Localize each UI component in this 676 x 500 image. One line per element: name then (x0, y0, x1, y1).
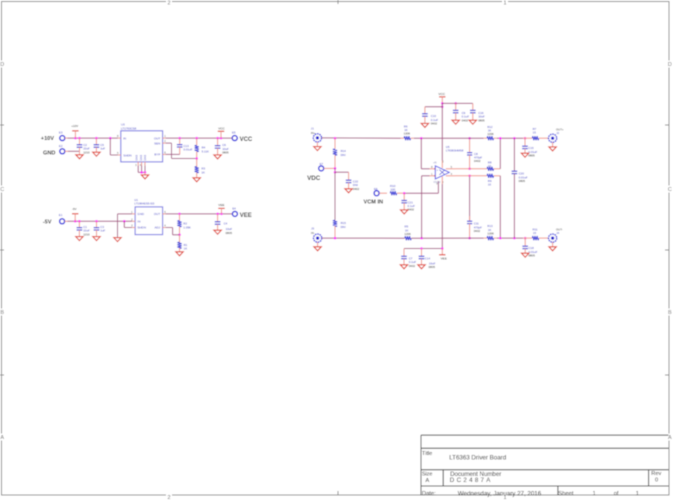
svg-text:10: 10 (488, 164, 492, 168)
wire OUT+ net (456, 137, 527, 169)
capacitor C16 10uF 0805 (470, 103, 485, 122)
node -5V (43, 220, 52, 226)
ground (C9) (452, 120, 459, 124)
capacitor C15 0.01uF 0805 (522, 138, 537, 157)
svg-text:2: 2 (168, 1, 171, 7)
wire SHDN tap (U1) (124, 221, 132, 227)
ground (C3) (93, 237, 100, 241)
svg-text:E1: E1 (59, 213, 63, 217)
capacitor C20 0.01uF 0805 (512, 138, 528, 238)
svg-text:1: 1 (636, 491, 639, 497)
svg-text:C: C (0, 187, 4, 193)
wire ADJ loop (U1) (166, 228, 180, 235)
IC U1 LT1964ES5-SD (131, 198, 166, 235)
resistor R1 1K (177, 235, 187, 252)
capacitor C2 22uF 1210 (77, 138, 90, 154)
svg-text:IN: IN (123, 136, 126, 140)
svg-text:1K: 1K (184, 247, 188, 251)
svg-text:1uF: 1uF (100, 229, 105, 233)
resistor R15 DNI (333, 172, 346, 238)
svg-text:E7: E7 (320, 162, 324, 166)
svg-text:E5: E5 (232, 131, 236, 135)
svg-text:10: 10 (488, 183, 492, 187)
svg-text:A: A (668, 435, 672, 441)
svg-text:Sheet: Sheet (558, 491, 574, 497)
svg-text:+10V: +10V (41, 136, 54, 142)
title block (421, 435, 669, 497)
svg-text:1: 1 (593, 491, 596, 497)
svg-text:of: of (614, 491, 619, 497)
ground (C7) (400, 265, 407, 269)
wire U1 GND pin (118, 214, 133, 238)
ground (U1 GND) (114, 238, 121, 242)
svg-text:GND: GND (143, 155, 147, 161)
ground (R1) (176, 252, 183, 256)
svg-text:D: D (668, 62, 672, 68)
wire IN- rail (322, 237, 467, 240)
svg-text:OUT: OUT (154, 136, 161, 140)
svg-text:VOCM: VOCM (433, 182, 440, 184)
svg-text:J1: J1 (311, 126, 314, 130)
svg-text:5.11K: 5.11K (202, 149, 209, 153)
svg-text:0402: 0402 (474, 229, 481, 233)
capacitor C18 0.01uF 0805 (522, 238, 537, 257)
svg-text:1.05K: 1.05K (183, 225, 191, 229)
capacitor C5 1uF (94, 138, 106, 152)
connector E3 (59, 131, 68, 141)
node VCC (240, 137, 253, 143)
connector E5 (232, 131, 237, 141)
svg-text:BYP: BYP (154, 153, 160, 157)
svg-text:Size: Size (422, 472, 433, 478)
svg-text:1210: 1210 (83, 150, 90, 154)
svg-text:-5V: -5V (72, 207, 77, 211)
svg-text:GND: GND (43, 150, 55, 156)
ground (C14) (418, 265, 425, 269)
svg-text:LT6363HMS8: LT6363HMS8 (446, 149, 464, 153)
node +10V (41, 136, 54, 142)
svg-text:-5V: -5V (43, 220, 52, 226)
svg-text:Rev: Rev (651, 471, 661, 477)
svg-text:1: 1 (504, 1, 507, 7)
resistor R14 DNI (333, 138, 346, 168)
connector E6 (374, 187, 387, 196)
svg-text:0402: 0402 (431, 122, 438, 126)
ground (C2/E2) (76, 152, 83, 159)
svg-text:0805: 0805 (429, 265, 436, 269)
svg-text:15: 15 (533, 131, 537, 135)
node VDC (307, 175, 321, 182)
svg-text:J3: J3 (311, 226, 314, 230)
connector E1 (59, 213, 68, 224)
svg-text:1206: 1206 (404, 132, 411, 136)
resistor R6 1K 1206 (401, 124, 414, 140)
capacitor C8 470pF 0402 (467, 137, 482, 170)
resistor R5 1K 1206 (404, 225, 411, 241)
ground (J1) (314, 147, 321, 151)
svg-text:SHDN: SHDN (137, 226, 146, 230)
capacitor C21 0.1uF 0402 (401, 193, 415, 212)
node GND (43, 150, 55, 156)
ground (R3) (193, 178, 200, 182)
svg-text:0805: 0805 (478, 118, 485, 122)
wire BYP (U3) (166, 153, 180, 155)
svg-text:B: B (668, 310, 672, 316)
svg-text:IN: IN (137, 220, 140, 224)
capacitor C11 470pF 0402 (467, 175, 482, 240)
svg-text:0402: 0402 (462, 118, 469, 122)
svg-text:ADJ: ADJ (155, 226, 161, 230)
ground (C10) (421, 123, 428, 127)
jack J1 IN+ (311, 126, 322, 146)
svg-text:+IN: +IN (433, 162, 437, 164)
svg-text:0805: 0805 (222, 151, 229, 155)
ground (C21) (401, 210, 408, 214)
svg-text:A: A (0, 435, 4, 441)
svg-text:Title: Title (422, 451, 432, 457)
svg-text:IN+: IN+ (311, 131, 316, 135)
resistor R3 1K (195, 159, 206, 178)
svg-text:IN-: IN- (311, 231, 315, 235)
ground (C18) (522, 253, 529, 257)
power flag +10V (71, 124, 78, 138)
jack J3 IN- (311, 226, 322, 246)
svg-text:C14: C14 (425, 256, 431, 260)
wire E2 to C2 ground node (68, 150, 80, 152)
svg-text:J2: J2 (556, 131, 559, 135)
wire OUT- net (456, 176, 527, 240)
svg-text:0805: 0805 (528, 154, 535, 158)
ground (C5) (93, 152, 100, 156)
svg-text:VCC: VCC (240, 137, 253, 143)
svg-text:0805: 0805 (226, 231, 233, 235)
svg-text:0: 0 (655, 477, 658, 483)
wire +IN (U5 pin 8) (421, 138, 429, 169)
svg-text:E3: E3 (59, 131, 63, 135)
svg-text:VEE: VEE (441, 257, 447, 261)
svg-text:2: 2 (168, 495, 171, 500)
svg-text:OUT: OUT (154, 212, 161, 216)
resistor R7 15 (523, 127, 549, 140)
IC U3 LT1763CS8 (117, 122, 166, 167)
svg-text:0402: 0402 (409, 264, 416, 268)
svg-text:1206: 1206 (404, 232, 411, 236)
wire VCC supply net (425, 102, 473, 160)
wire VCM net (403, 181, 438, 194)
wire IN+ rail (322, 137, 468, 140)
ground (J2) (549, 147, 556, 151)
svg-text:1206: 1206 (487, 232, 494, 236)
svg-text:J4: J4 (556, 231, 559, 235)
svg-text:SEN: SEN (154, 141, 160, 145)
ground (J3) (314, 247, 321, 251)
node VCM IN (364, 199, 384, 205)
connector E4 (232, 207, 237, 217)
op-amp U5 LT6363HMS8 (430, 145, 464, 186)
resistor R2 1.05K (177, 214, 191, 236)
svg-text:VCC: VCC (438, 92, 445, 96)
power flag -5V (72, 207, 78, 221)
capacitor C9 0.1uF 0402 (453, 103, 469, 122)
svg-text:Date:: Date: (422, 491, 436, 497)
ground (C4) (214, 230, 221, 234)
svg-text:+10V: +10V (71, 124, 78, 128)
wire +10V rail (68, 137, 118, 140)
jack J2 OUT+ (549, 127, 564, 147)
wire -IN (U5 pin 1) (422, 176, 430, 238)
svg-text:0.01uF: 0.01uF (183, 148, 192, 152)
svg-text:0402: 0402 (353, 187, 360, 191)
wire U3 GND pins (138, 162, 146, 174)
ground (C15) (521, 153, 528, 157)
resistor R4 5.11K (195, 138, 209, 160)
svg-text:LT1964ES5-SD: LT1964ES5-SD (134, 202, 154, 206)
svg-text:VCC: VCC (218, 126, 225, 130)
capacitor C1 22uF 1210 (77, 221, 90, 236)
svg-text:C: C (668, 187, 672, 193)
svg-text:A: A (425, 478, 429, 484)
node VEE (240, 213, 252, 219)
svg-text:1210: 1210 (83, 232, 90, 236)
capacitor C13 0.01uF (177, 138, 193, 154)
svg-text:DC2487A: DC2487A (450, 477, 493, 484)
svg-text:E4: E4 (232, 207, 236, 211)
svg-text:0402: 0402 (474, 159, 481, 163)
svg-text:LT1763CS8: LT1763CS8 (121, 126, 137, 130)
power flag VCC (U3 out) (218, 126, 226, 138)
ground (U3) (141, 172, 148, 179)
resistor R13 1K 1206 (467, 224, 497, 240)
wire SHDN tap (U3) (110, 138, 118, 155)
svg-text:100: 100 (390, 188, 395, 192)
power flag VEE (U5) (439, 249, 447, 261)
capacitor C7 0.1uF 0402 (401, 249, 416, 268)
svg-text:GND: GND (137, 212, 145, 216)
svg-text:E2: E2 (59, 144, 63, 148)
ground (C22) (345, 189, 352, 193)
wire VCC output rail (166, 137, 232, 140)
svg-text:B: B (0, 310, 4, 316)
svg-text:DNI: DNI (341, 153, 346, 157)
resistor R9 10 (487, 174, 493, 187)
ground (C16) (469, 120, 476, 124)
wire VEE output rail (166, 213, 233, 216)
resistor R10 100 (390, 184, 404, 195)
power flag VEE (U1 out) (218, 203, 224, 214)
svg-text:15: 15 (533, 231, 537, 235)
wire -5V rail (68, 220, 133, 223)
svg-text:1K: 1K (201, 170, 205, 174)
svg-text:1206: 1206 (487, 132, 494, 136)
ground (C6) (214, 155, 221, 159)
svg-text:VDC: VDC (307, 175, 321, 182)
svg-text:C4: C4 (224, 222, 228, 226)
connector E7 (319, 162, 337, 171)
svg-text:GND: GND (134, 155, 138, 161)
svg-text:VEE: VEE (218, 203, 224, 207)
svg-text:SHDN: SHDN (123, 153, 132, 157)
resistor R12 1K 1206 (467, 125, 497, 140)
svg-text:LT6363 Driver Board: LT6363 Driver Board (449, 455, 507, 462)
svg-text:DNI: DNI (341, 225, 346, 229)
svg-text:Wednesday, January 27, 2016: Wednesday, January 27, 2016 (458, 490, 542, 497)
ground (J4) (549, 247, 556, 251)
capacitor C10 0.1uF 0402 (422, 107, 438, 126)
svg-text:1uF: 1uF (100, 147, 105, 151)
svg-text:VCM IN: VCM IN (364, 199, 384, 205)
capacitor C3 1uF (94, 221, 106, 236)
svg-text:0805: 0805 (528, 254, 535, 258)
svg-text:D: D (0, 62, 4, 68)
capacitor C4 10uF 0805 (215, 214, 233, 235)
capacitor C22 DNI 0402 (346, 172, 360, 191)
svg-text:E6: E6 (374, 187, 378, 191)
svg-text:0805: 0805 (519, 179, 526, 183)
jack J4 OUT- (549, 227, 563, 246)
resistor R11 15 (523, 227, 548, 240)
resistor R8 10 (487, 160, 493, 171)
capacitor C14 10uF 0805 (419, 249, 436, 270)
capacitor C6 10uF 0805 (215, 138, 229, 155)
svg-text:VEE: VEE (240, 213, 252, 219)
power flag VCC (U5) (438, 92, 445, 103)
wire VDC node (334, 168, 349, 173)
wire SEN loop (U3) (166, 143, 197, 158)
connector E2 (59, 144, 68, 154)
ground (C1) (76, 237, 83, 241)
wire VEE supply net (404, 184, 444, 250)
svg-text:GND: GND (139, 155, 143, 161)
